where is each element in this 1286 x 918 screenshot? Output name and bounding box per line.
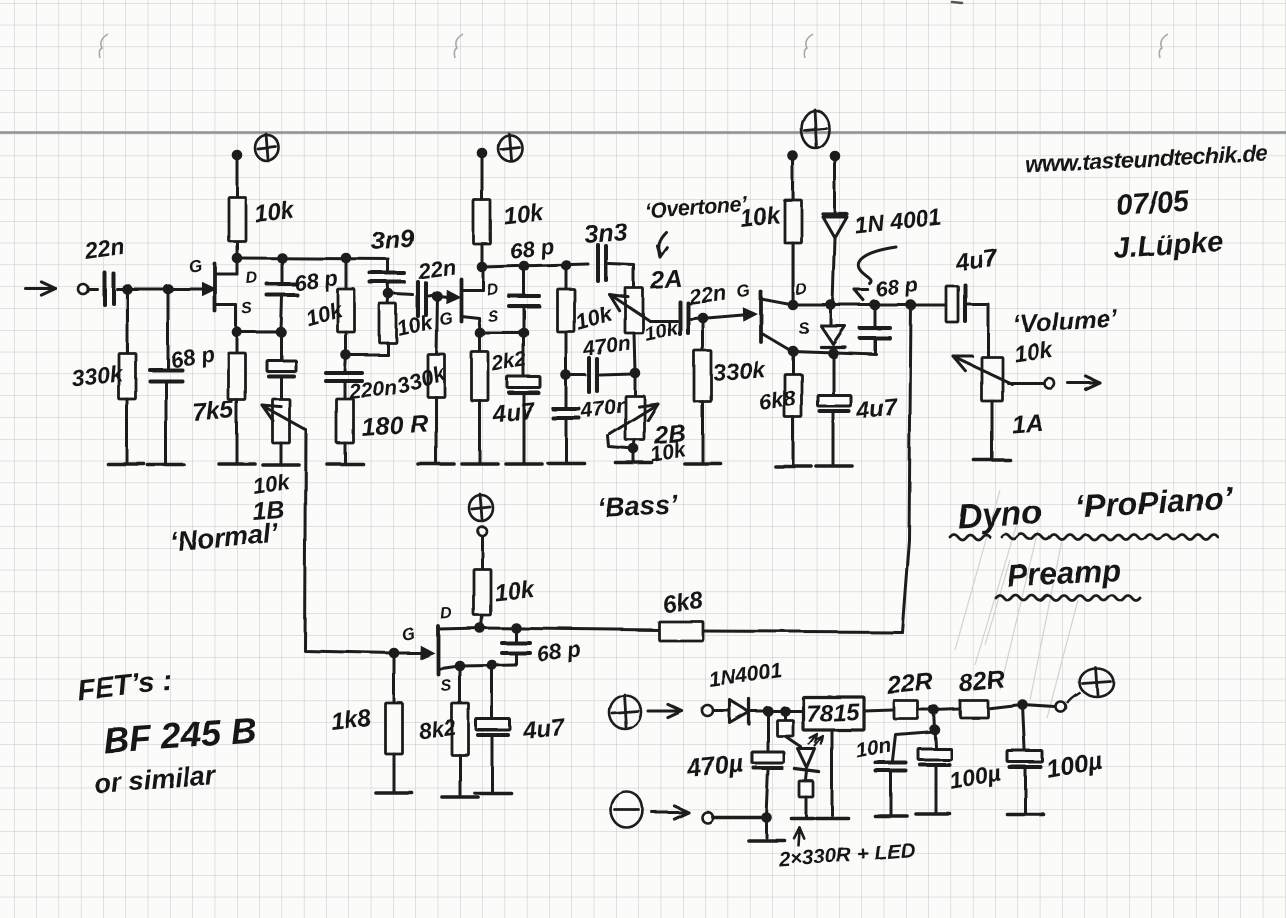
potentiometer 2A 10k treble [625,288,643,333]
ground 100u second [1007,812,1043,816]
leader arrow 1N4001 [858,247,896,284]
resistor 330k input [126,289,129,353]
svg-text:180 R: 180 R [360,409,429,442]
power + stage1 [255,135,279,161]
diode D3 1N4001 [730,700,749,723]
resistor R4 10k [388,294,389,304]
wire to 10n [893,732,935,761]
svg-text:D: D [245,269,258,287]
svg-text:1A: 1A [1010,409,1044,439]
svg-text:10k: 10k [253,197,297,228]
ground 7k5 [219,462,255,466]
ground led branch [791,816,813,820]
wire pot 2A to C 22n out [650,320,677,323]
resistor 10k tone ladder [565,265,568,289]
wire output corner [987,305,990,357]
wire V+ stage4 [481,536,484,569]
capacitor 68p D-S stage2 [523,266,526,294]
input terminal [78,284,88,294]
svg-text:D: D [486,281,499,299]
resistor 330R led [806,771,807,780]
svg-text:7k5: 7k5 [191,396,236,427]
svg-text:4u7: 4u7 [491,398,538,429]
capacitor 4u7 source stage2 [523,333,526,375]
node drain Q3 [788,300,799,311]
wire gate Q2 [440,296,447,297]
arrow + input [648,710,682,713]
terminal + input [703,706,714,717]
svg-text:Dyno: Dyno [956,494,1043,536]
wire to LED [785,736,801,747]
ground pot 2B [616,461,652,465]
svg-text:D: D [795,281,808,299]
resistor 8k2 source stage4 [459,666,462,703]
svg-text:6k8: 6k8 [757,385,798,415]
capacitor 100u second [1023,705,1025,749]
wire Volume bottom [991,401,994,458]
node minus rail end [761,812,772,823]
ground 330k Q2 [418,462,454,466]
resistor 7k5 [236,332,239,353]
node 470n left [561,370,572,381]
capacitor ceramic led branch [784,711,787,719]
power minus circle [611,792,643,828]
svg-text:‘Bass’: ‘Bass’ [597,489,679,523]
capacitor source bypass stage1 [280,332,283,359]
svg-text:10k: 10k [1012,336,1055,367]
stray mark top edge [952,2,962,3]
arrow minus input [652,811,688,814]
LED arrows [809,735,816,744]
ground 180R [327,462,363,466]
svg-text:6k8: 6k8 [661,587,705,619]
ground 6k8 stage3 [775,464,811,468]
arrow to led label [798,830,799,845]
power + stage3 [801,110,829,148]
wire wiper to output terminal [1008,382,1043,385]
power + stage2 [498,135,522,161]
svg-text:8k2: 8k2 [417,714,458,744]
wire to gate Q3 [691,318,699,319]
ground 8k2 [442,795,478,799]
potentiometer 2B 10k bass [634,373,637,396]
capacitor 470u [767,711,770,750]
ground 470n [548,461,584,465]
potentiometer 1B 10k [273,399,290,443]
svg-text:S: S [440,677,452,695]
svg-text:330k: 330k [70,360,125,391]
wire feedback 1B to Q4 gate [305,430,393,653]
capacitor 68p input [167,289,170,368]
svg-text:22R: 22R [885,667,935,700]
ground 7815 [816,816,848,820]
power + input circle [609,695,641,729]
svg-text:4u7: 4u7 [521,714,568,745]
node gate Q2 [432,291,443,302]
node 68p top stage3 [870,300,881,311]
node V+ stage2 [477,148,488,159]
resistor 1k8 gate Q4 [393,653,396,703]
wire source Q3 row [792,351,876,354]
svg-text:Preamp: Preamp [1007,553,1122,594]
capacitor 470n upper [566,374,585,377]
node source Q4 [455,661,466,672]
wire gate Q4 [394,652,421,655]
node input A [122,284,133,295]
svg-text:07/05: 07/05 [1115,185,1190,222]
resistor 2k2 source stage2 [479,333,482,352]
node R3 top [341,253,352,264]
wire 7815 out [864,710,893,711]
node 10k top stage2 [561,260,572,271]
ground 330k [108,462,144,466]
terminal + out [1056,702,1066,712]
transistor Q2 BF245B [446,289,461,303]
node caps branch [934,710,935,729]
capacitor 100u first [935,730,936,747]
wire 22R to node [918,709,933,712]
svg-text:1k8: 1k8 [330,705,373,736]
node D2 top [826,300,837,311]
resistor 180R [337,399,354,443]
ground 1k8 [376,791,412,795]
wire to + out terminal [1023,705,1055,707]
node pot 2B bottom [634,440,635,449]
resistor 6k8 source stage3 [792,351,795,374]
resistor 82R [934,709,959,710]
wire 3n3 to pot 2A [609,264,634,288]
wire drain Q1 up [236,155,239,255]
wire minus rail [712,815,766,818]
faint pencil streaks [955,490,1078,718]
underline ProPiano [1002,535,1218,540]
wire C1 to gate Q1 [117,288,202,291]
underline Dyno [950,535,990,540]
capacitor 68p D-S stage1 [281,259,284,282]
diode D1 1N4001 [834,156,837,213]
resistor R3 10k [345,259,348,289]
node 22R out [929,705,940,716]
capacitor 10n [876,761,906,765]
ground 4u7 stage3 [816,464,852,468]
input arrow [26,288,56,291]
capacitor 4u7 output coupling [911,304,944,307]
wire 82R to output [988,705,1022,709]
node 470u top [763,706,774,717]
svg-text:3n9: 3n9 [369,224,414,255]
capacitor C1 22n [102,272,106,304]
overtone arrow [658,232,666,255]
diode D2 1N4001 [830,305,833,324]
resistor R5 10k drain stage2 [474,200,491,244]
svg-text:10k: 10k [493,576,537,607]
svg-text:10k: 10k [502,199,546,230]
svg-text:D: D [440,605,453,623]
node drain Q4 [475,623,486,634]
ground pot 1B [263,463,299,467]
node R3 R4 junction [341,350,352,361]
node drain Q2 [477,262,488,273]
node psu output [1018,700,1029,711]
wire 7815 ground pin [831,730,834,815]
wire input to C1 [88,288,97,291]
ground 330k Q3 [685,462,721,466]
node gate Q3 [698,313,709,324]
wiper pot 2A [611,295,650,321]
wiper pot 1B [263,406,306,430]
svg-text:3n3: 3n3 [583,218,628,249]
svg-text:S: S [487,308,499,326]
node drain Q1 [232,253,243,264]
wire gate Q3 arrow [707,315,743,318]
transistor Q4 BF245B [420,645,435,659]
wire 470u ground stub [765,817,768,837]
node V+ right stage3 [830,151,841,162]
svg-text:7815: 7815 [806,699,861,728]
node 68p top stage2 [519,261,530,272]
page curl marks [99,34,1168,58]
ground 470u [748,838,784,842]
capacitor 4u7 stage4 [491,665,494,717]
wiper pot 2B [610,406,655,434]
output arrow [1068,382,1100,385]
power + out circle [1079,668,1113,696]
node led branch top [780,706,791,717]
horizontal ruled line [0,131,1286,134]
output terminal [1044,378,1054,388]
wire feedback to 6k8h [704,631,902,632]
wire source row stage4 [459,665,516,666]
ground 68p input [148,463,184,467]
svg-text:470µ: 470µ [685,749,745,783]
wire feedback vertical [902,305,911,632]
svg-text:4u7: 4u7 [854,394,901,425]
wire source Q1 row [237,331,281,334]
wiper Volume [955,357,1012,384]
terminal minus input [702,812,713,823]
node gate Q4 [389,648,400,659]
ground 10n [875,814,907,818]
transistor Q1 BF245B [213,264,217,311]
wire drain node row stage1 [237,258,388,259]
wire drain node row stage3 [793,304,946,307]
capacitor 3n9 [387,259,390,271]
ground Volume [974,458,1010,462]
wire source Q2 row [480,332,524,335]
wire to D3 [714,710,729,713]
capacitor 470n lower [565,375,568,407]
resistor 10k drain stage4 [474,569,491,615]
svg-text:330k: 330k [712,356,766,386]
resistor 330k gate Q3 [702,318,705,351]
wiper hook pot 2B [608,436,634,449]
wire drain row stage4 [480,628,659,630]
capacitor 22n tone out [678,302,682,334]
capacitor C22n interstage [395,294,413,295]
node 3n9 bottom [384,289,395,300]
svg-text:82R: 82R [958,665,1007,698]
node V+ left stage3 [788,151,799,162]
ground 4u7 stage4 [475,791,511,795]
svg-text:S: S [798,320,810,338]
svg-text:10k: 10k [251,469,293,499]
transistor Q3 BF245B [743,307,758,321]
capacitor 68p stage3 [874,305,877,326]
resistor R1 10k drain stage1 [229,197,246,241]
underline Preamp [996,596,1140,601]
svg-text:S: S [241,300,253,318]
node V+ stage1 [232,150,243,161]
node 68p top [277,253,288,264]
ground 4u7 stage2 [506,462,542,466]
wire drain node row stage2 [482,264,588,267]
node source Q1 [232,327,243,338]
node source Q2 [475,328,486,339]
ground 100u first [916,812,950,816]
diode LED [798,749,815,768]
capacitor 68p D-S stage4 [515,628,518,641]
resistor 6k8 horizontal [659,622,703,641]
resistor 330k gate Q2 [436,296,437,354]
node feedback takeoff [906,300,917,311]
power + stage4 [469,495,493,521]
resistor 22R [894,701,918,719]
capacitor 220n [345,355,346,371]
regulator U1 7815 [803,697,864,730]
node 68p top stage4 [511,623,522,634]
node pot2A bottom [634,333,635,372]
capacitor 3n3 [596,245,600,281]
svg-text:2A: 2A [648,265,683,295]
terminal + stage4 [478,527,487,536]
potentiometer Volume 10k [982,357,1003,401]
wire drain Q2 up [481,244,484,267]
capacitor 4u7 stage3 [832,353,835,393]
ground 2k2 [462,462,498,466]
resistor R8 10k drain stage3 [792,156,795,200]
node source Q3 [788,346,799,357]
